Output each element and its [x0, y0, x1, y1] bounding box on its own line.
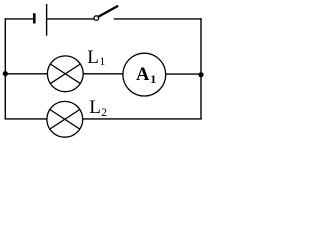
svg-text:1: 1: [150, 72, 156, 86]
wire: bottom-left (left corner to lamp L2): [5, 118, 47, 120]
wire: left junction to lamp L1: [5, 73, 47, 75]
wire: left vertical: [4, 18, 6, 119]
wire: lamp L2 to bottom-right corner: [83, 118, 202, 120]
switch S: [94, 6, 118, 21]
svg-text:A: A: [136, 65, 150, 85]
wire: ammeter to right junction: [166, 73, 201, 75]
node: left junction: [3, 71, 8, 76]
wire: switch to top-right corner: [114, 18, 202, 20]
wire: battery to switch: [47, 18, 95, 20]
battery: [34, 4, 46, 36]
wire: top-left horizontal (left corner to battery): [5, 18, 34, 20]
ammeter A1: [123, 53, 166, 96]
svg-text:L: L: [87, 47, 99, 68]
node: right junction: [198, 72, 203, 77]
wire: lamp L1 to ammeter A1: [83, 73, 123, 75]
lamp L1: [47, 56, 83, 92]
svg-text:L: L: [89, 97, 101, 118]
svg-text:2: 2: [101, 107, 107, 119]
lamp L2: [47, 101, 83, 137]
svg-text:1: 1: [100, 56, 106, 68]
wire: right vertical: [200, 18, 202, 119]
